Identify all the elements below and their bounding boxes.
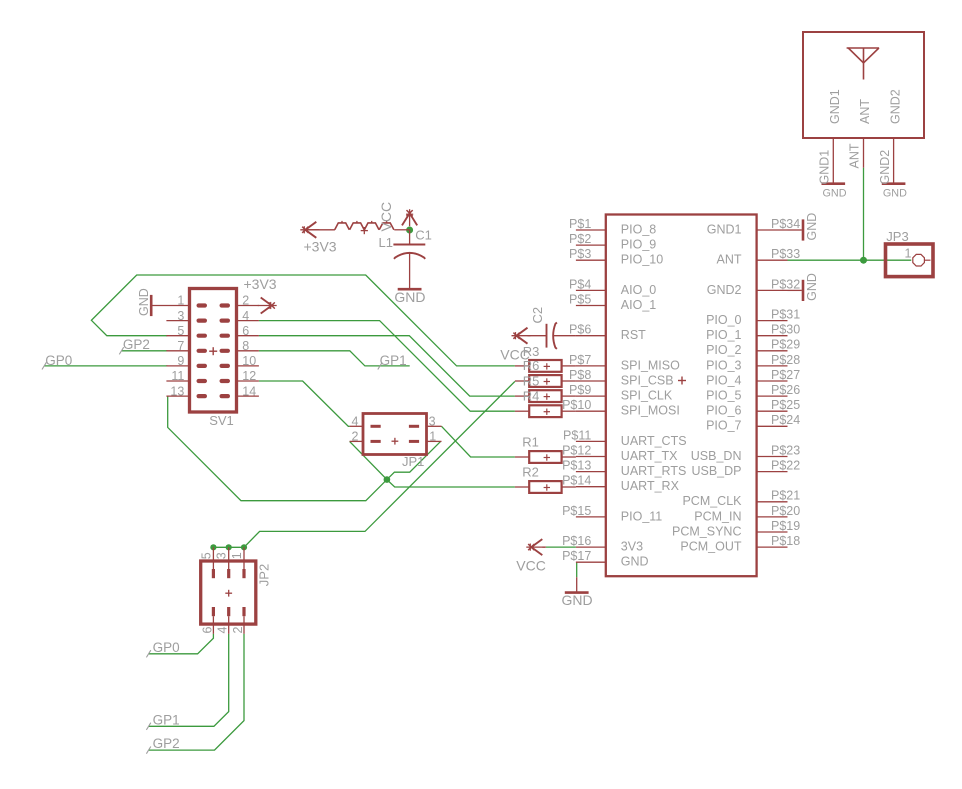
svg-text:GND2: GND2 (878, 150, 892, 185)
svg-text:R2: R2 (522, 465, 539, 480)
svg-text:2: 2 (242, 294, 249, 308)
svg-text:P$11: P$11 (563, 428, 591, 442)
svg-text:6: 6 (242, 324, 249, 338)
svg-text:VCC: VCC (378, 202, 394, 232)
svg-text:5: 5 (199, 552, 213, 559)
svg-text:GND1: GND1 (818, 150, 832, 185)
svg-text:P$13: P$13 (562, 459, 591, 473)
svg-text:2: 2 (351, 429, 358, 443)
svg-text:UART_TX: UART_TX (621, 449, 678, 463)
svg-text:7: 7 (177, 339, 184, 353)
svg-text:P$10: P$10 (562, 398, 591, 412)
svg-text:P$30: P$30 (771, 323, 800, 337)
svg-text:R4: R4 (523, 388, 540, 403)
svg-text:P$31: P$31 (771, 308, 800, 322)
svg-text:P$21: P$21 (771, 489, 800, 503)
svg-text:C2: C2 (530, 307, 545, 324)
svg-text:GND1: GND1 (828, 89, 842, 124)
svg-text:GP2: GP2 (153, 736, 180, 751)
svg-text:P$22: P$22 (771, 459, 800, 473)
svg-text:SPI_MISO: SPI_MISO (621, 358, 680, 372)
svg-text:PIO_2: PIO_2 (706, 343, 741, 357)
svg-text:P$24: P$24 (771, 413, 800, 427)
svg-text:P$26: P$26 (771, 383, 800, 397)
svg-text:JP1: JP1 (402, 454, 424, 469)
svg-text:GND: GND (562, 592, 593, 608)
svg-text:UART_RX: UART_RX (621, 479, 680, 493)
svg-text:RST: RST (621, 328, 646, 342)
svg-text:P$1: P$1 (569, 217, 591, 231)
svg-text:SPI_MOSI: SPI_MOSI (621, 404, 680, 418)
svg-text:P$28: P$28 (771, 353, 800, 367)
svg-text:GND: GND (823, 187, 847, 199)
svg-text:R1: R1 (522, 435, 539, 450)
svg-text:GND: GND (805, 213, 819, 241)
svg-text:3: 3 (429, 414, 436, 428)
svg-text:14: 14 (242, 384, 256, 398)
svg-text:GND: GND (394, 289, 425, 305)
svg-text:P$16: P$16 (562, 534, 591, 548)
svg-text:SPI_CSB: SPI_CSB (621, 373, 674, 387)
svg-text:GND: GND (883, 187, 907, 199)
svg-text:P$32: P$32 (771, 277, 800, 291)
svg-text:P$19: P$19 (771, 519, 800, 533)
svg-text:UART_RTS: UART_RTS (621, 464, 687, 478)
svg-text:VCC: VCC (516, 557, 546, 573)
svg-text:GP2: GP2 (123, 337, 150, 352)
svg-text:GND: GND (621, 555, 649, 569)
svg-text:GP0: GP0 (153, 640, 180, 655)
svg-text:P$14: P$14 (562, 474, 591, 488)
svg-text:AIO_0: AIO_0 (621, 283, 656, 297)
svg-text:GND2: GND2 (707, 283, 742, 297)
svg-text:PIO_7: PIO_7 (706, 419, 741, 433)
svg-text:5: 5 (177, 324, 184, 338)
svg-text:4: 4 (242, 309, 249, 323)
svg-text:1: 1 (177, 294, 184, 308)
svg-text:P$27: P$27 (771, 368, 800, 382)
svg-text:SV1: SV1 (209, 413, 234, 428)
svg-text:P$5: P$5 (569, 292, 591, 306)
svg-text:P$25: P$25 (771, 398, 800, 412)
svg-text:P$29: P$29 (771, 338, 800, 352)
svg-text:PIO_10: PIO_10 (621, 253, 663, 267)
svg-text:P$17: P$17 (562, 549, 591, 563)
svg-text:PIO_1: PIO_1 (706, 328, 741, 342)
svg-text:JP3: JP3 (886, 229, 908, 244)
svg-text:3: 3 (177, 309, 184, 323)
svg-text:+3V3: +3V3 (304, 239, 337, 255)
svg-text:P$23: P$23 (771, 443, 800, 457)
svg-text:P$33: P$33 (771, 247, 800, 261)
svg-text:PIO_5: PIO_5 (706, 389, 741, 403)
svg-text:USB_DN: USB_DN (691, 449, 742, 463)
svg-text:P$7: P$7 (569, 353, 591, 367)
svg-text:PCM_OUT: PCM_OUT (680, 540, 741, 554)
svg-text:C1: C1 (415, 228, 432, 243)
svg-text:P$4: P$4 (569, 277, 591, 291)
svg-text:P$12: P$12 (562, 443, 591, 457)
svg-text:PIO_11: PIO_11 (621, 509, 663, 523)
svg-text:L1: L1 (379, 235, 393, 250)
svg-text:ANT: ANT (848, 143, 862, 168)
svg-text:1: 1 (905, 246, 912, 260)
svg-text:11: 11 (171, 369, 184, 383)
svg-text:8: 8 (242, 339, 249, 353)
svg-text:P$20: P$20 (771, 504, 800, 518)
svg-text:GND: GND (137, 288, 151, 316)
svg-text:GND: GND (805, 273, 819, 301)
svg-text:3: 3 (215, 552, 229, 559)
svg-text:P$3: P$3 (569, 247, 591, 261)
svg-text:JP2: JP2 (256, 564, 271, 586)
svg-text:2: 2 (231, 627, 245, 634)
svg-text:ANT: ANT (717, 253, 742, 267)
svg-text:9: 9 (177, 354, 184, 368)
svg-text:P$8: P$8 (569, 368, 591, 382)
svg-text:6: 6 (200, 627, 214, 634)
svg-text:USB_DP: USB_DP (691, 464, 741, 478)
svg-text:P$2: P$2 (569, 232, 591, 246)
svg-text:+3V3: +3V3 (244, 276, 277, 292)
svg-text:ANT: ANT (858, 99, 872, 124)
svg-text:10: 10 (242, 354, 256, 368)
svg-text:P$6: P$6 (569, 323, 591, 337)
svg-text:GND1: GND1 (707, 222, 742, 236)
svg-text:PIO_6: PIO_6 (706, 404, 741, 418)
svg-text:AIO_1: AIO_1 (621, 298, 656, 312)
svg-text:1: 1 (429, 429, 436, 443)
svg-text:4: 4 (351, 414, 358, 428)
svg-text:P$9: P$9 (569, 383, 591, 397)
svg-text:GP1: GP1 (153, 712, 180, 727)
svg-text:PIO_3: PIO_3 (706, 358, 741, 372)
svg-text:4: 4 (216, 627, 230, 634)
svg-text:PIO_8: PIO_8 (621, 222, 656, 236)
svg-text:GND2: GND2 (889, 89, 903, 124)
svg-text:PCM_IN: PCM_IN (694, 509, 741, 523)
svg-text:R5: R5 (523, 373, 540, 388)
svg-text:PIO_9: PIO_9 (621, 238, 656, 252)
svg-text:3V3: 3V3 (621, 540, 643, 554)
svg-text:1: 1 (230, 552, 244, 559)
svg-text:UART_CTS: UART_CTS (621, 434, 687, 448)
svg-text:PCM_CLK: PCM_CLK (682, 494, 742, 508)
svg-text:P$15: P$15 (562, 504, 591, 518)
svg-text:PIO_0: PIO_0 (706, 313, 741, 327)
svg-text:GP0: GP0 (45, 353, 72, 368)
svg-text:13: 13 (170, 384, 184, 398)
svg-text:VCC: VCC (500, 347, 530, 363)
svg-text:P$18: P$18 (771, 534, 800, 548)
svg-text:SPI_CLK: SPI_CLK (621, 389, 673, 403)
svg-text:GP1: GP1 (380, 353, 407, 368)
svg-text:P$34: P$34 (771, 217, 800, 231)
svg-text:PCM_SYNC: PCM_SYNC (672, 524, 741, 538)
svg-text:12: 12 (242, 369, 256, 383)
svg-text:PIO_4: PIO_4 (706, 373, 741, 387)
